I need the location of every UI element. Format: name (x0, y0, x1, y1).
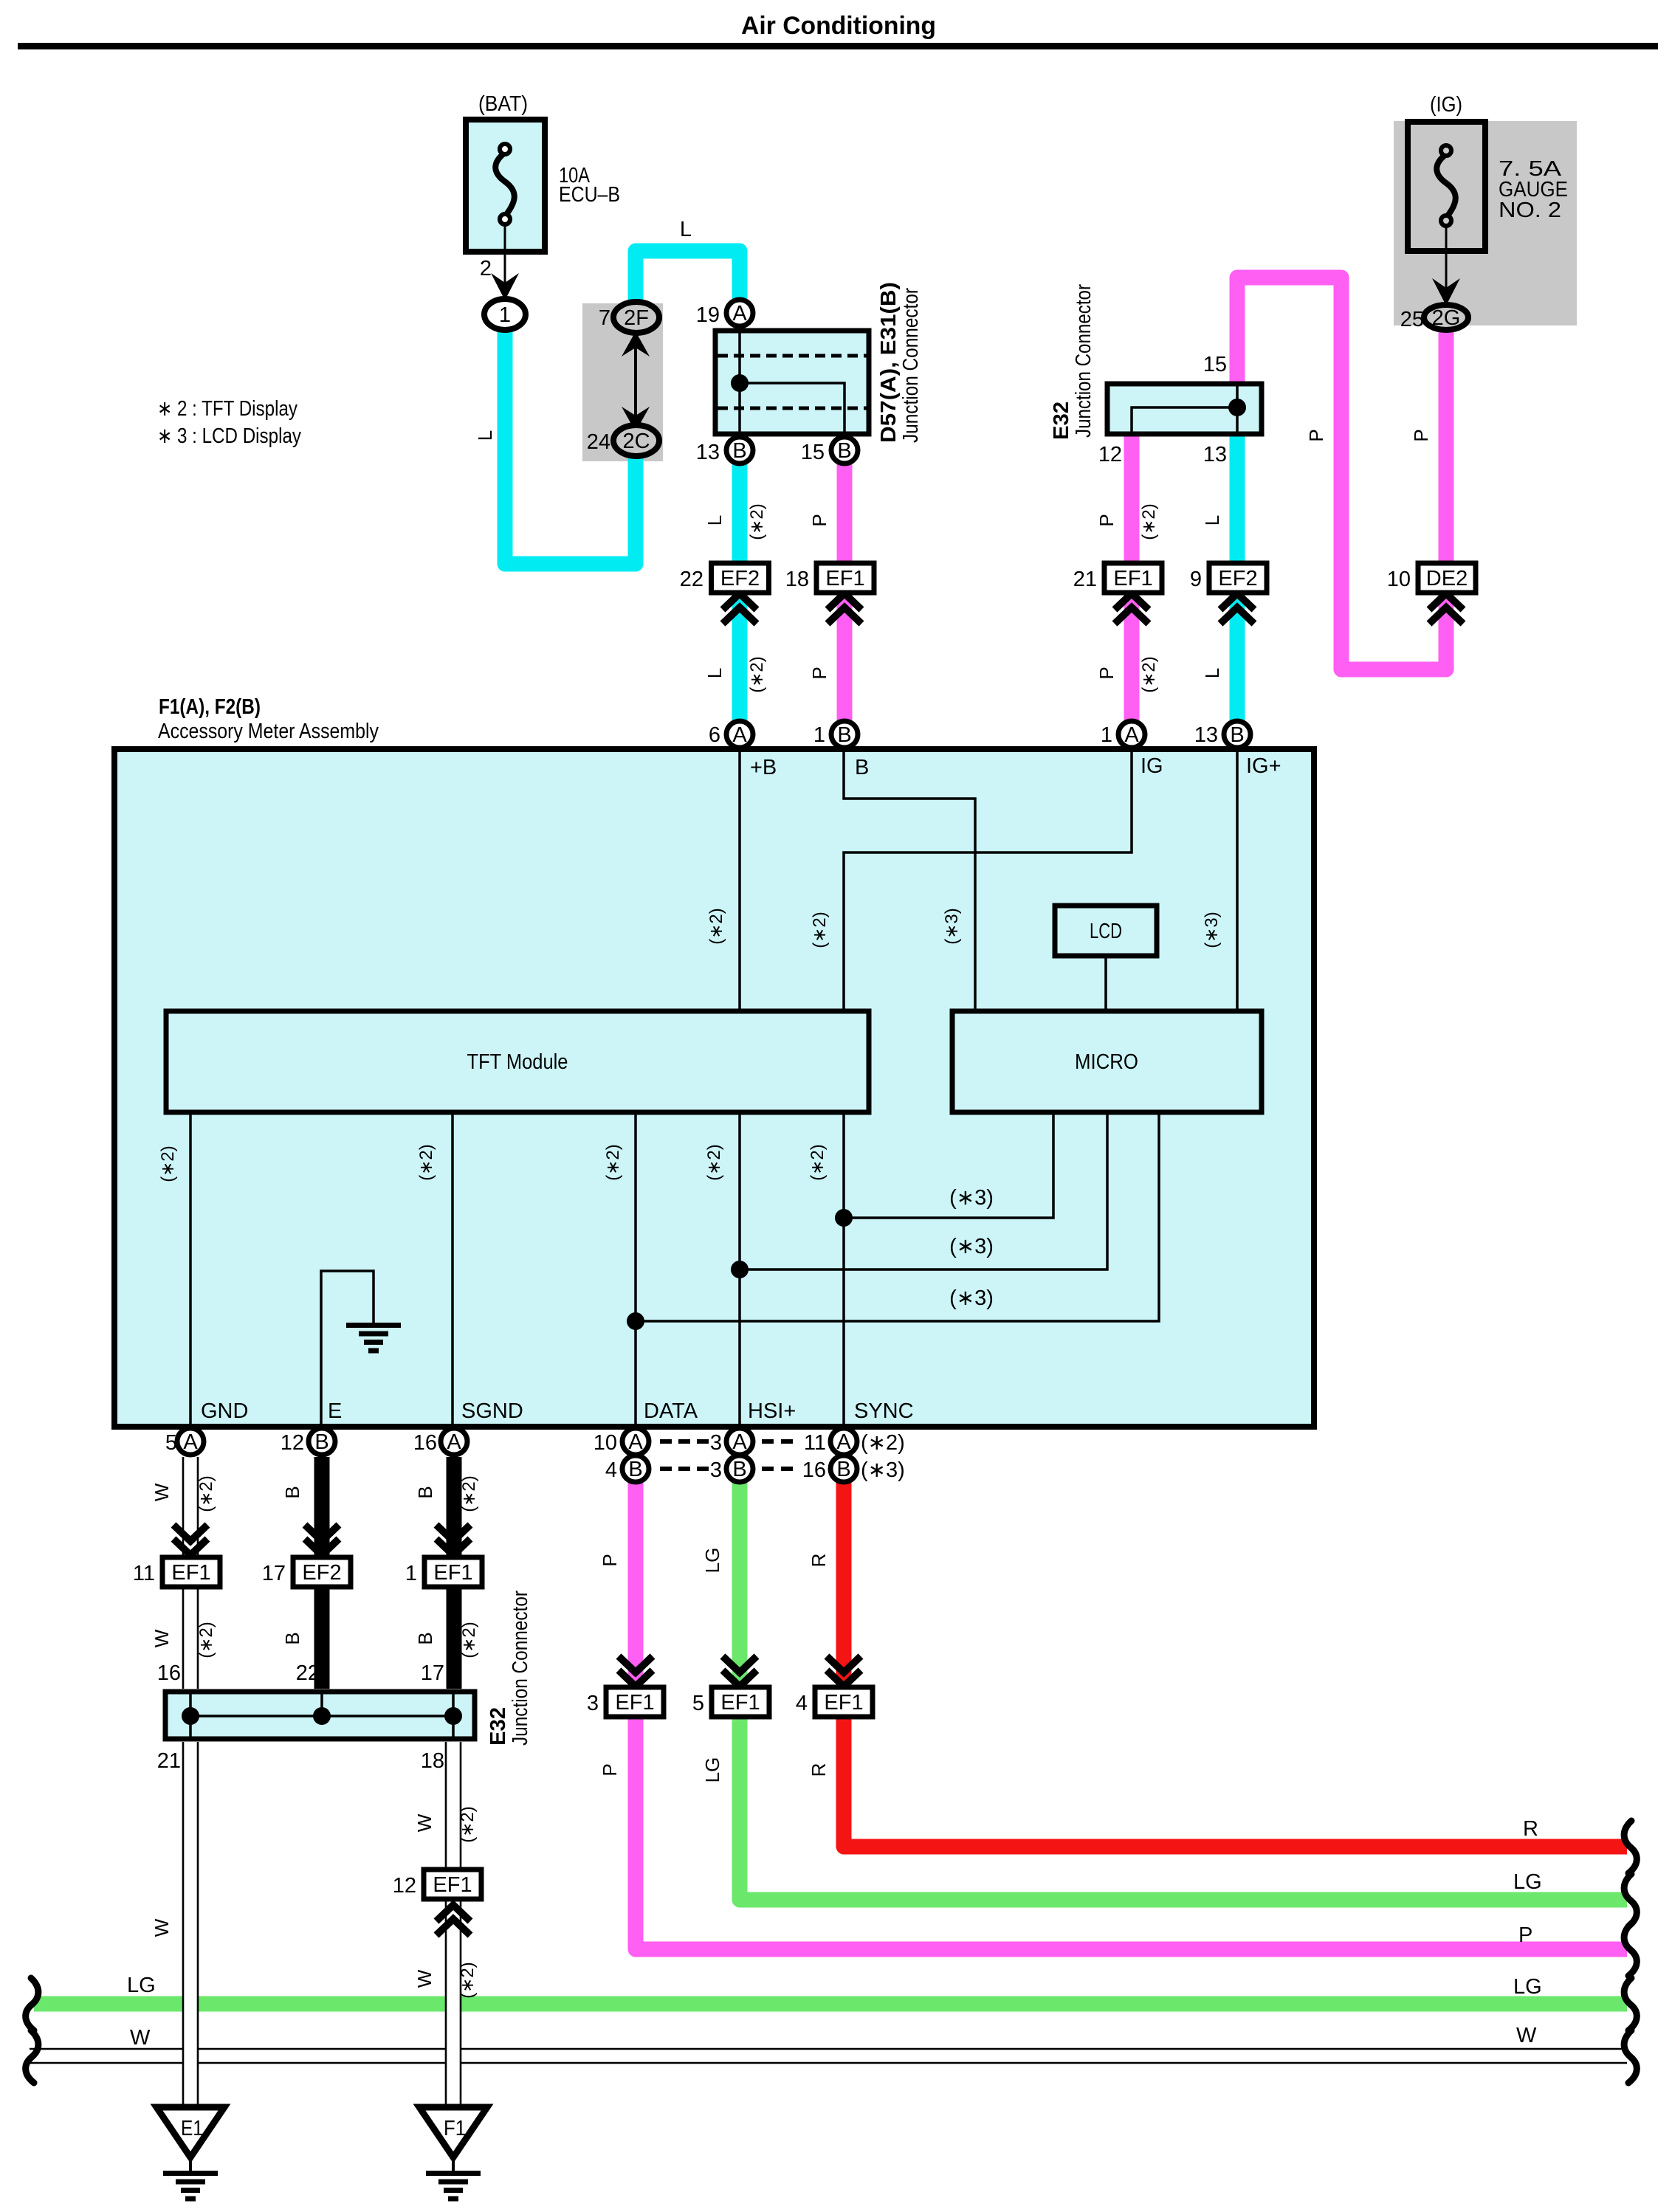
svg-text:LG: LG (701, 1757, 723, 1783)
svg-text:L: L (703, 515, 726, 526)
svg-text:16: 16 (802, 1458, 826, 1482)
svg-text:(∗2): (∗2) (1139, 503, 1159, 540)
svg-text:7: 7 (599, 306, 610, 330)
svg-text:4: 4 (605, 1458, 617, 1482)
svg-text:13: 13 (696, 441, 720, 464)
svg-text:16: 16 (413, 1431, 437, 1455)
svg-text:ECU–B: ECU–B (559, 183, 620, 207)
svg-text:12: 12 (1098, 443, 1122, 466)
svg-text:1: 1 (499, 303, 511, 327)
svg-text:EF1: EF1 (824, 1691, 863, 1715)
svg-text:W: W (413, 1969, 436, 1988)
svg-text:(∗2): (∗2) (416, 1144, 436, 1180)
svg-text:1: 1 (813, 723, 825, 747)
svg-text:(∗2): (∗2) (747, 503, 767, 540)
svg-text:15: 15 (801, 441, 825, 464)
svg-text:P: P (599, 1554, 621, 1566)
svg-text:P: P (1095, 514, 1118, 526)
svg-text:EF1: EF1 (615, 1691, 654, 1715)
svg-text:13: 13 (1194, 723, 1218, 747)
svg-text:15: 15 (1203, 353, 1227, 376)
svg-text:B: B (855, 756, 869, 779)
svg-text:∗ 2 : TFT Display: ∗ 2 : TFT Display (157, 397, 297, 421)
svg-text:LG: LG (1513, 1870, 1542, 1894)
svg-text:EF1: EF1 (433, 1561, 472, 1585)
svg-text:P: P (1410, 429, 1432, 441)
svg-text:E: E (328, 1399, 342, 1423)
svg-text:(∗2): (∗2) (1139, 656, 1159, 692)
svg-text:B: B (1230, 723, 1244, 747)
svg-text:B: B (732, 1458, 746, 1481)
svg-text:(∗2): (∗2) (459, 1622, 479, 1658)
svg-text:MICRO: MICRO (1075, 1050, 1138, 1074)
svg-text:B: B (837, 723, 851, 747)
svg-text:DE2: DE2 (1426, 567, 1468, 590)
svg-text:P: P (1518, 1923, 1532, 1947)
svg-text:Accessory Meter Assembly: Accessory Meter Assembly (158, 720, 379, 743)
svg-text:P: P (808, 514, 830, 526)
svg-text:5: 5 (165, 1431, 177, 1455)
svg-text:B: B (414, 1632, 436, 1644)
svg-text:19: 19 (696, 303, 720, 327)
svg-text:(BAT): (BAT) (478, 92, 528, 116)
svg-text:L: L (1201, 668, 1223, 678)
svg-text:(∗3): (∗3) (949, 1286, 994, 1310)
svg-text:A: A (836, 1430, 851, 1454)
svg-text:LG: LG (701, 1548, 723, 1574)
svg-text:LG: LG (1513, 1975, 1542, 1999)
svg-text:(∗2): (∗2) (861, 1431, 905, 1455)
svg-text:EF1: EF1 (825, 567, 864, 590)
svg-text:A: A (447, 1430, 461, 1454)
svg-text:B: B (837, 439, 851, 463)
svg-text:Junction Connector: Junction Connector (509, 1591, 532, 1746)
svg-text:17: 17 (262, 1562, 286, 1585)
svg-text:L: L (680, 218, 692, 241)
svg-text:LCD: LCD (1090, 920, 1122, 943)
svg-text:24: 24 (587, 430, 610, 454)
svg-text:Air Conditioning: Air Conditioning (741, 12, 936, 40)
svg-text:SYNC: SYNC (854, 1399, 914, 1423)
svg-text:4: 4 (796, 1692, 808, 1715)
svg-text:P: P (1095, 666, 1118, 679)
svg-text:21: 21 (157, 1749, 181, 1773)
svg-text:10: 10 (1387, 568, 1411, 591)
svg-text:2: 2 (480, 257, 492, 280)
svg-text:(∗3): (∗3) (949, 1235, 994, 1258)
svg-text:13: 13 (1203, 443, 1227, 466)
svg-text:IG+: IG+ (1246, 754, 1281, 778)
svg-text:W: W (413, 1813, 436, 1832)
svg-text:EF2: EF2 (302, 1561, 341, 1585)
svg-text:1: 1 (1101, 723, 1112, 747)
svg-text:B: B (628, 1458, 642, 1481)
svg-text:EF1: EF1 (171, 1561, 210, 1585)
svg-text:W: W (151, 1483, 173, 1501)
svg-text:9: 9 (1190, 568, 1202, 591)
svg-text:EF2: EF2 (720, 567, 760, 590)
svg-text:NO. 2: NO. 2 (1499, 199, 1561, 222)
svg-text:22: 22 (680, 568, 703, 591)
svg-text:(∗2): (∗2) (810, 912, 830, 948)
svg-text:(∗2): (∗2) (706, 908, 726, 944)
svg-text:W: W (151, 1918, 173, 1937)
svg-text:EF1: EF1 (1113, 567, 1152, 590)
svg-text:(∗2): (∗2) (458, 1806, 478, 1842)
svg-text:SGND: SGND (461, 1399, 523, 1423)
svg-text:17: 17 (421, 1661, 444, 1685)
svg-text:IG: IG (1141, 754, 1163, 778)
svg-text:1: 1 (405, 1562, 417, 1585)
svg-text:11: 11 (133, 1562, 155, 1585)
svg-text:P: P (808, 666, 830, 679)
svg-text:(IG): (IG) (1430, 93, 1462, 117)
svg-text:A: A (1124, 723, 1139, 747)
svg-text:∗ 3 : LCD Display: ∗ 3 : LCD Display (157, 424, 301, 448)
svg-text:2F: 2F (624, 306, 649, 330)
svg-text:(∗2): (∗2) (459, 1475, 479, 1512)
svg-text:2G: 2G (1432, 306, 1461, 330)
svg-text:DATA: DATA (644, 1399, 698, 1423)
svg-text:L: L (1201, 515, 1223, 526)
svg-text:B: B (414, 1486, 436, 1498)
svg-text:22: 22 (296, 1661, 320, 1685)
svg-text:D57(A), E31(B): D57(A), E31(B) (877, 282, 901, 443)
svg-text:(∗2): (∗2) (808, 1144, 828, 1180)
svg-text:W: W (1516, 2024, 1537, 2047)
svg-text:(∗2): (∗2) (704, 1144, 724, 1180)
svg-text:(∗2): (∗2) (458, 1962, 478, 1998)
svg-text:5: 5 (692, 1692, 704, 1715)
svg-text:E32: E32 (486, 1707, 510, 1746)
svg-text:(∗2): (∗2) (196, 1622, 216, 1658)
svg-text:EF2: EF2 (1218, 567, 1257, 590)
svg-text:R: R (808, 1763, 830, 1777)
svg-text:A: A (732, 302, 747, 325)
svg-text:E32: E32 (1050, 402, 1073, 440)
svg-text:11: 11 (804, 1431, 826, 1455)
svg-text:3: 3 (710, 1458, 722, 1482)
svg-text:LG: LG (127, 1974, 156, 1997)
svg-text:E1: E1 (181, 2117, 203, 2140)
svg-text:3: 3 (587, 1692, 599, 1715)
svg-text:21: 21 (1073, 568, 1097, 591)
svg-text:L: L (474, 430, 496, 441)
svg-text:10: 10 (594, 1431, 617, 1455)
svg-text:16: 16 (157, 1661, 181, 1685)
svg-text:(∗3): (∗3) (861, 1458, 905, 1482)
svg-text:(∗3): (∗3) (949, 1186, 994, 1210)
svg-text:EF1: EF1 (433, 1873, 472, 1897)
svg-text:Junction Connector: Junction Connector (899, 288, 923, 443)
svg-text:(∗3): (∗3) (1202, 912, 1222, 948)
svg-text:+B: +B (750, 756, 777, 779)
svg-text:3: 3 (710, 1431, 722, 1455)
svg-text:B: B (732, 439, 746, 463)
svg-text:B: B (836, 1458, 850, 1481)
svg-text:Junction Connector: Junction Connector (1072, 284, 1095, 438)
svg-text:P: P (1305, 429, 1327, 441)
svg-text:(∗2): (∗2) (158, 1145, 178, 1182)
svg-text:(∗3): (∗3) (942, 908, 962, 944)
svg-text:(∗2): (∗2) (196, 1475, 216, 1512)
svg-text:GND: GND (201, 1399, 248, 1423)
svg-text:EF1: EF1 (720, 1691, 760, 1715)
svg-text:25: 25 (1400, 308, 1424, 331)
svg-text:12: 12 (393, 1874, 416, 1898)
svg-text:(∗2): (∗2) (603, 1144, 623, 1180)
svg-text:TFT Module: TFT Module (467, 1050, 568, 1074)
svg-text:A: A (732, 1430, 747, 1454)
svg-text:2C: 2C (622, 430, 650, 453)
svg-text:B: B (314, 1430, 328, 1454)
svg-text:W: W (151, 1629, 173, 1647)
svg-text:P: P (599, 1763, 621, 1776)
svg-text:R: R (808, 1554, 830, 1568)
svg-text:A: A (183, 1430, 198, 1454)
svg-text:F1(A), F2(B): F1(A), F2(B) (159, 695, 261, 719)
svg-text:HSI+: HSI+ (748, 1399, 796, 1423)
svg-text:18: 18 (785, 568, 809, 591)
svg-text:B: B (281, 1486, 303, 1498)
svg-text:(∗2): (∗2) (747, 656, 767, 692)
svg-text:L: L (703, 668, 726, 678)
svg-text:18: 18 (421, 1749, 444, 1773)
svg-text:12: 12 (281, 1431, 304, 1455)
svg-text:A: A (628, 1430, 643, 1454)
svg-text:A: A (732, 723, 747, 747)
svg-text:W: W (130, 2026, 151, 2050)
svg-text:R: R (1523, 1817, 1538, 1841)
svg-text:B: B (281, 1632, 303, 1644)
svg-text:6: 6 (709, 723, 720, 747)
svg-text:F1: F1 (444, 2117, 466, 2140)
